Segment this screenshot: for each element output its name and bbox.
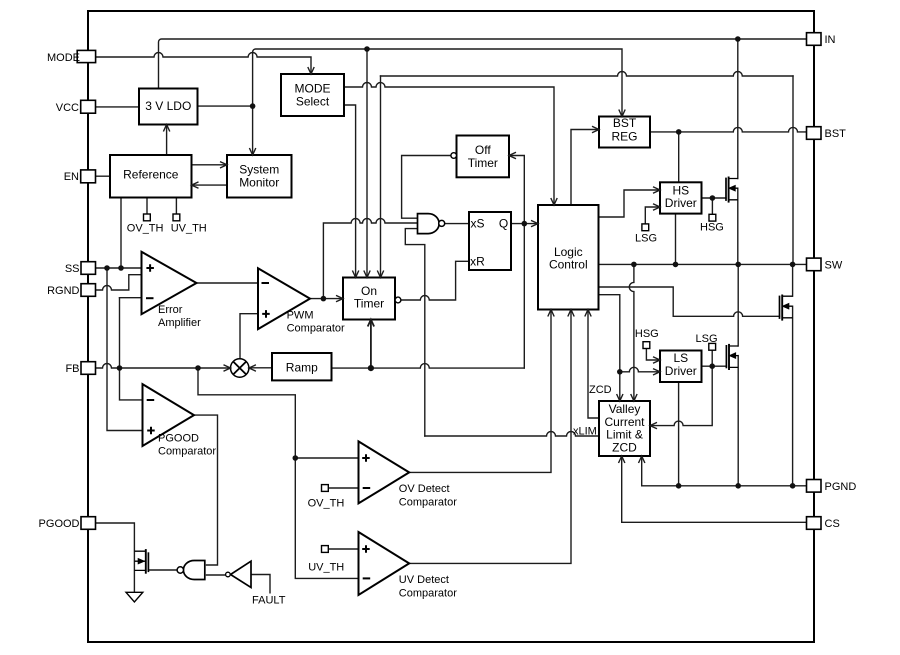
svg-text:System: System <box>239 163 279 177</box>
wire NAND bottom input from xLIM vertical <box>405 229 425 436</box>
svg-text:UV Detect: UV Detect <box>399 574 449 586</box>
wire fault NAND output bubble to pulldown FET gate <box>148 569 177 571</box>
wire Logic Control out1 to HS Driver input1 arrow <box>599 190 659 217</box>
opamp error amplifier <box>142 252 197 314</box>
wire LSG stub up from LS gate junction <box>711 350 713 366</box>
wire error amp minus input from FB junction <box>120 297 142 299</box>
svg-text:Driver: Driver <box>665 196 697 210</box>
wire SS pin to error amp plus input <box>96 267 142 269</box>
svg-text:Amplifier: Amplifier <box>158 317 201 329</box>
svg-text:Control: Control <box>549 257 588 271</box>
svg-text:Driver: Driver <box>665 364 697 378</box>
svg-text:EN: EN <box>64 171 79 183</box>
arrow into MODE Select top <box>308 67 314 74</box>
svg-text:Comparator: Comparator <box>399 497 457 509</box>
block HS Driver <box>660 182 702 213</box>
svg-text:Q: Q <box>499 217 508 231</box>
block On Timer <box>343 278 395 320</box>
block Reference <box>110 155 192 198</box>
wire Q junction down to Ramp line <box>523 224 525 369</box>
wire error amp output to PWM comparator minus input <box>197 282 259 284</box>
stub HSG top <box>709 214 716 221</box>
wire BST junction down to HS Driver top <box>678 132 680 182</box>
wire Reference UV_TH stub <box>175 198 177 215</box>
wire SW junction down to LS sense FET drain <box>737 264 739 346</box>
IC outer border <box>88 11 814 642</box>
block 3V LDO <box>139 89 198 125</box>
wire LS gate junction down to Valley right input arrow (hop at x=678.6) <box>652 366 712 425</box>
wire UV_TH stub to UV Detect plus input <box>328 548 358 550</box>
wire SW-sense rail y=76 from corner x=380.5 to corner x=793 (hops at x=622, x=737.8) <box>381 72 794 77</box>
transistor Q3 low-side power FET <box>780 295 793 321</box>
ground symbol <box>126 592 143 602</box>
svg-text:FAULT: FAULT <box>252 595 286 607</box>
stub OV_TH comparator <box>322 485 329 492</box>
arrow into On Timer left <box>336 295 343 301</box>
bubble On Timer output <box>395 297 401 303</box>
wire latch Q output to Logic Control left arrow <box>511 223 536 225</box>
wire HS Driver output to HS FET gate <box>702 197 727 199</box>
bubble Off Timer input <box>451 153 457 159</box>
svg-text:REG: REG <box>611 130 637 144</box>
svg-text:LSG: LSG <box>696 333 718 345</box>
opamp PWM comparator <box>258 268 310 329</box>
gate NAND U2 fault (left-facing) <box>183 561 204 580</box>
svg-text:UV_TH: UV_TH <box>171 223 207 235</box>
block Ramp <box>272 353 332 380</box>
wire inverter input from FAULT stub <box>251 575 270 593</box>
wire y=76 rail right leg down to SW line <box>792 76 794 264</box>
transistor Q1 high-side FET <box>726 177 738 203</box>
glyphs UV detect <box>362 545 370 553</box>
opamp PGOOD comparator <box>143 384 195 446</box>
wire BST REG output to BST pin (hops at x=737.8, x=793) <box>650 127 807 132</box>
stub UV_TH under Reference <box>173 214 180 221</box>
wire HS FET source down to SW line <box>737 188 739 264</box>
wire Reference to System Monitor arrow <box>192 164 226 166</box>
opamp UV detect comparator <box>359 532 410 595</box>
transistor Q2 low-side sense FET <box>726 344 738 370</box>
transistor Q4 PGOOD open-drain FET (mirrored) <box>134 549 148 574</box>
wire xLIM line from vertical to Valley block (hops at x=551 and x=571) <box>425 432 599 436</box>
pin FB <box>81 362 96 375</box>
wire OV_TH stub to OV Detect minus input <box>328 487 358 489</box>
svg-text:Timer: Timer <box>468 156 498 170</box>
block SR latch <box>469 212 511 270</box>
pin BST <box>807 127 822 140</box>
wire FB pin to multiplier left arrow (hop at x=107) <box>96 364 230 369</box>
wire BST REG left input from Logic Control top <box>571 130 597 206</box>
pin PGOOD <box>81 517 96 530</box>
svg-text:Monitor: Monitor <box>239 176 279 190</box>
wire 3V rail branch down at x=367 to On Timer (hops over y=87 and y=223 handled on those lines) <box>366 49 368 276</box>
wire Logic Control out y=294.7 down to Valley top arrow 1 (LS driver branch) <box>599 295 620 399</box>
gate inverter U3 fault (left-facing) <box>231 561 252 587</box>
wire LSG stub to HS Driver input2 <box>645 207 658 224</box>
wire Ramp right line to Q vertical (hop at x=424.8) <box>332 364 525 369</box>
wire Q junction up to Off Timer right arrow <box>511 156 524 224</box>
wire HSG stub down from HS gate junction <box>711 198 713 214</box>
block Off Timer <box>457 136 510 178</box>
arrow into System Monitor top <box>249 148 255 155</box>
svg-text:MODE: MODE <box>47 52 80 64</box>
wire fault NAND input2 to inverter bubble <box>207 574 226 576</box>
arrowheads <box>163 67 660 463</box>
arrows into LS Driver left x2 <box>653 357 660 363</box>
svg-text:ZCD: ZCD <box>612 440 637 454</box>
svg-text:xLIM: xLIM <box>573 426 597 438</box>
svg-text:OV Detect: OV Detect <box>399 483 450 495</box>
svg-text:Timer: Timer <box>354 297 384 311</box>
arrow Reference to System Monitor <box>220 162 227 168</box>
wire LS Driver output to LS sense FET gate <box>702 365 727 367</box>
wire LDO output horizontal to 3V-rail junction <box>198 105 253 107</box>
plus minus glyphs <box>146 264 370 578</box>
wire PGOOD pin to pulldown FET drain <box>96 523 135 592</box>
wire RGND pin to error amp second plus input (hop at x=107) <box>96 275 142 290</box>
wire right FET source down to PGND line <box>792 306 794 486</box>
wire LS Driver input2 from x=619.8 junction (hop at x=633.9) <box>620 367 658 372</box>
arrow System Monitor to Reference <box>192 182 199 188</box>
wire PWM output junction up to NAND middle input (hops at x=355.6,367,380.5 on y=223) <box>323 219 417 299</box>
block LS Driver <box>660 351 702 383</box>
wire EN pin to Reference <box>96 175 110 177</box>
svg-text:UV_TH: UV_TH <box>308 562 344 574</box>
wire 3V-rail junction down to System Monitor top arrow <box>252 106 254 153</box>
pin PGND <box>807 480 822 493</box>
wire VCC pin to 3V LDO <box>96 106 139 108</box>
wire CS pin to Valley bottom arrow 1 <box>622 458 807 522</box>
wire 3V rail: LDO output up and right to BST REG top arrow <box>253 49 622 115</box>
wire FB junction vertical x=119.5 from error amp minus to PGOOD comp minus <box>120 298 143 400</box>
svg-text:LS: LS <box>673 351 688 365</box>
wire SW line from Logic Control to SW pin <box>599 263 808 265</box>
glyphs PGOOD comparator <box>147 399 155 401</box>
arrow into Off Timer right <box>509 152 516 158</box>
wire sense node down to UV Detect minus input <box>295 458 358 578</box>
wire Valley ZCD output up to Logic Control bottom arrow 3 <box>588 312 599 419</box>
wire Reference OV_TH stub <box>146 198 148 215</box>
svg-text:ZCD: ZCD <box>589 384 612 396</box>
wire MODE Select out1 y=87 to Logic Control top arrow (hops at x=367, x=380.5) <box>344 83 554 204</box>
svg-text:SW: SW <box>825 260 843 272</box>
glyphs PWM comparator <box>262 282 270 284</box>
pin SW <box>807 258 822 271</box>
arrows into On Timer top x3 <box>352 271 358 278</box>
wire Reference up to 3V LDO bottom arrow <box>166 127 168 156</box>
opamp OV detect comparator <box>359 441 410 503</box>
svg-text:BST: BST <box>825 128 847 140</box>
wire Off Timer output bubble to NAND top input <box>402 156 451 219</box>
svg-text:OV_TH: OV_TH <box>127 223 164 235</box>
arrow into multiplier left <box>224 365 231 371</box>
pin SS <box>81 262 96 275</box>
wire SW junction down to Valley top arrow 2 (vertical hop over y=287) <box>629 264 634 399</box>
arrow into BST REG top <box>619 110 625 117</box>
svg-text:FB: FB <box>65 363 79 375</box>
arrow into Valley right <box>650 422 657 428</box>
svg-text:CS: CS <box>825 518 840 530</box>
pin VCC <box>81 100 96 113</box>
svg-text:SS: SS <box>65 263 80 275</box>
wire PWM comparator output to On Timer left arrow <box>310 298 341 300</box>
svg-text:PWM: PWM <box>287 310 314 322</box>
svg-text:Comparator: Comparator <box>399 588 457 600</box>
svg-text:xR: xR <box>470 255 485 269</box>
svg-text:PGOOD: PGOOD <box>158 433 199 445</box>
pin CS <box>807 517 822 530</box>
stub LSG top <box>642 224 649 231</box>
wire IN net: top rail from LDO-input corner to IN pin <box>159 39 807 89</box>
wire NAND output to latch xS input <box>445 223 469 225</box>
svg-text:Off: Off <box>475 143 491 157</box>
svg-text:Ramp: Ramp <box>286 361 318 375</box>
svg-text:PGND: PGND <box>825 481 857 493</box>
svg-text:PGOOD: PGOOD <box>39 518 80 530</box>
stub HSG bottom <box>643 342 650 349</box>
wire MODE Select out2 y=105 down to On Timer top <box>344 105 356 276</box>
wire LS sense FET source down to PGND line <box>737 356 739 486</box>
wire HSG stub to LS Driver input1 <box>646 348 658 360</box>
wire UV Detect output up to Logic Control bottom arrow 2 <box>409 312 571 564</box>
pin RGND <box>81 284 96 297</box>
wire SS junction down to PGOOD comparator plus input (hops on RGND and FB lines) <box>107 268 143 431</box>
wire MODE pin to MODE Select top arrow (hops at x=158.5 and x=253) <box>96 53 312 73</box>
wire PGND line from Valley bottom arrow 2 to PGND pin <box>642 458 807 486</box>
svg-text:VCC: VCC <box>56 102 79 114</box>
svg-text:BST: BST <box>613 116 637 130</box>
arrow into Logic Control left <box>531 220 538 226</box>
arrow into On Timer bottom <box>368 320 374 327</box>
wire On Timer output bubble to latch xR input (hop at x=424.8) <box>401 261 469 300</box>
block Logic Control <box>538 205 599 310</box>
pin MODE <box>77 50 95 62</box>
arrows into HS Driver left x2 <box>653 187 660 193</box>
svg-text:Select: Select <box>296 94 330 108</box>
svg-text:HSG: HSG <box>700 222 724 234</box>
svg-text:Reference: Reference <box>123 168 179 182</box>
wire SW junction down to right FET drain <box>792 264 794 296</box>
pin EN <box>81 170 96 183</box>
svg-text:OV_TH: OV_TH <box>308 498 345 510</box>
svg-text:Comparator: Comparator <box>287 323 345 335</box>
wire HS Driver bottom down to SW line <box>675 214 677 265</box>
svg-text:MODE: MODE <box>295 81 331 95</box>
svg-text:LSG: LSG <box>635 233 657 245</box>
wire y=76 rail left leg down to On Timer top <box>380 76 382 276</box>
svg-text:xS: xS <box>470 217 484 231</box>
svg-text:Error: Error <box>158 304 183 316</box>
svg-text:RGND: RGND <box>47 285 79 297</box>
wire System Monitor to Reference arrow <box>194 184 228 186</box>
wire LS Driver bottom down to PGND line <box>678 382 680 486</box>
arrow into multiplier right <box>249 365 256 371</box>
arrow into 3V LDO bottom <box>163 125 169 132</box>
block System Monitor <box>227 155 292 198</box>
arrows into Logic Control bottom x3 <box>548 310 554 317</box>
block BST REG <box>599 117 650 148</box>
wire PGOOD comparator output down to fault NAND input1 <box>194 415 218 565</box>
wire Reference bottom down to SS junction <box>120 198 122 269</box>
gate NAND U1 (on-time set) <box>418 214 440 234</box>
glyphs error amp <box>146 264 154 272</box>
wire multiplier top to PWM comparator plus input <box>240 314 258 359</box>
arrow into Logic Control top <box>551 198 557 205</box>
stub UV_TH comparator <box>322 546 329 553</box>
svg-text:IN: IN <box>825 34 836 46</box>
stub LSG bottom <box>709 343 716 350</box>
wire FB junction down-right to OV/UV sense node <box>198 368 295 458</box>
glyphs OV detect <box>362 454 370 462</box>
arrows into Valley top x2 <box>617 394 623 401</box>
multiplier (FB x Ramp) <box>231 359 249 377</box>
wire Logic Control out y=287 staircase to LS sense FET gate (hop at x=738) <box>599 287 780 316</box>
wire Ramp junction up to On Timer bottom arrow <box>370 322 372 369</box>
svg-text:Comparator: Comparator <box>158 446 216 458</box>
wire IN branch down to HS FET drain <box>737 39 739 179</box>
svg-text:3 V LDO: 3 V LDO <box>145 99 191 113</box>
stub OV_TH under Reference <box>144 214 151 221</box>
arrows into Valley bottom x2 <box>619 456 625 463</box>
wire sense node to OV Detect plus input <box>295 457 358 459</box>
wire Ramp output line to multiplier right arrow <box>251 367 273 369</box>
block Valley Current Limit and ZCD <box>599 401 650 456</box>
arrow into BST REG left <box>592 126 599 132</box>
block MODE Select <box>281 74 344 116</box>
svg-text:HSG: HSG <box>635 328 659 340</box>
wire OV Detect output up to Logic Control bottom arrow 1 (hop handled on xLIM line) <box>409 312 551 473</box>
pin IN <box>807 33 822 46</box>
